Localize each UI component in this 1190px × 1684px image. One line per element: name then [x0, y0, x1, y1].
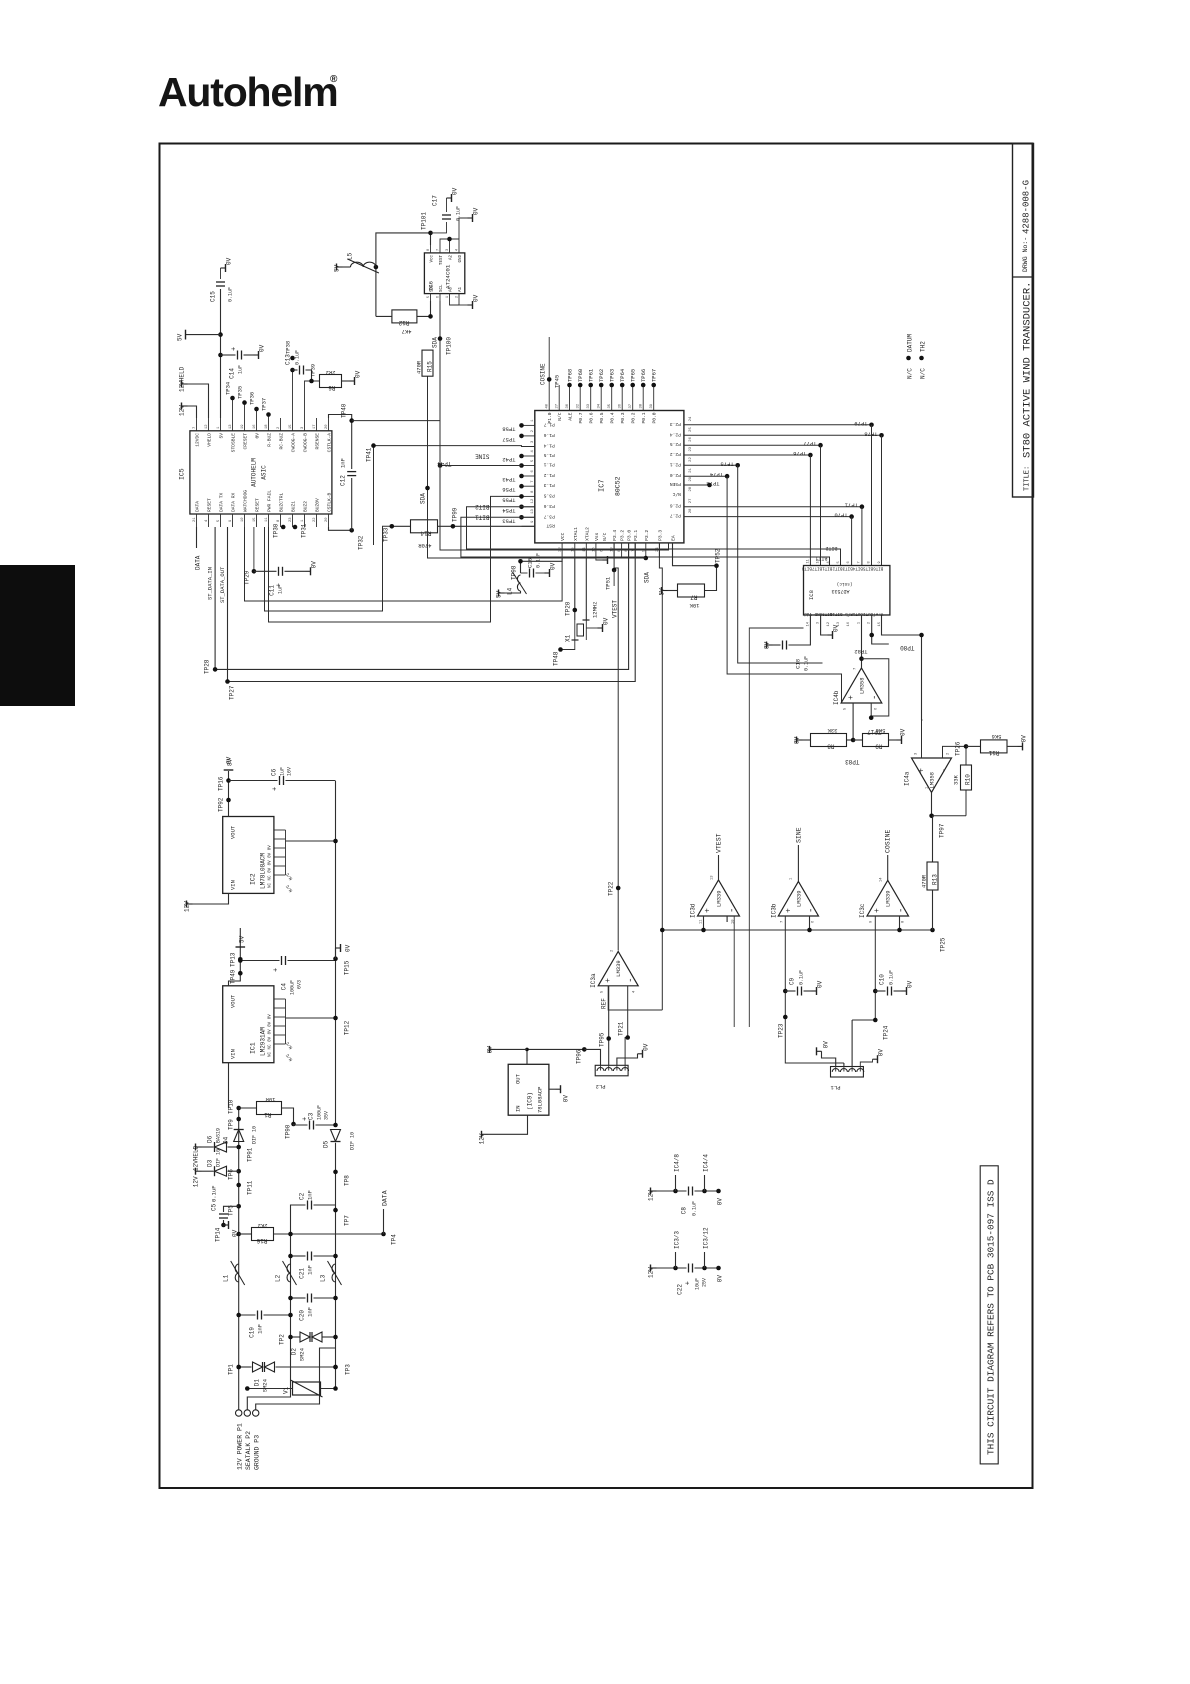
svg-text:TEST: TEST [440, 255, 444, 266]
net label COSINE output [887, 855, 889, 880]
testpoint TP9 [236, 1117, 241, 1122]
svg-text:3: 3 [817, 622, 821, 624]
testpoint TP48 [561, 640, 575, 650]
svg-text:SEATALK P2: SEATALK P2 [245, 1431, 252, 1470]
svg-text:PL1: PL1 [830, 1084, 841, 1091]
svg-text:12V POWER P1: 12V POWER P1 [237, 1423, 244, 1470]
svg-text:TP12: TP12 [344, 1020, 351, 1035]
svg-text:TP82: TP82 [854, 648, 867, 655]
testpoint TP99 [451, 524, 456, 529]
IC7 pin XTAL1 [574, 543, 576, 558]
power 5V branch [218, 332, 223, 337]
svg-text:P0.0: P0.0 [652, 412, 658, 423]
svg-text:12V: 12V [184, 901, 191, 912]
svg-text:P1.3: P1.3 [544, 482, 555, 488]
svg-text:5V: 5V [659, 588, 666, 596]
svg-text:40: 40 [546, 403, 550, 408]
svg-text:C2: C2 [299, 1192, 306, 1200]
svg-text:10K: 10K [689, 602, 700, 609]
capacitor C6 1uF 16V [229, 780, 278, 782]
testpoint TP37 [268, 415, 270, 419]
IC5 pin CSTLK-B [328, 514, 330, 527]
testpoint TP36 [256, 409, 258, 418]
svg-text:TP83: TP83 [845, 758, 860, 765]
svg-text:C10: C10 [879, 974, 886, 985]
svg-text:0V: 0V [563, 1095, 570, 1103]
inductor L1 [235, 1264, 238, 1282]
svg-text:TP40: TP40 [341, 403, 348, 418]
svg-text:P2.5: P2.5 [670, 441, 681, 447]
title block [1013, 144, 1034, 498]
svg-text:33K: 33K [953, 774, 960, 785]
capacitor C19 1nF [239, 1314, 256, 1316]
svg-text:IC3/3: IC3/3 [674, 1231, 681, 1249]
svg-text:6: 6 [437, 296, 441, 298]
svg-text:0.1uF: 0.1uF [228, 287, 234, 302]
svg-text:TH2: TH2 [920, 341, 927, 352]
IC7 pin P0.0 TP67 [653, 385, 655, 411]
svg-text:P3.2: P3.2 [644, 530, 650, 541]
svg-text:P1.6: P1.6 [544, 432, 555, 438]
svg-text:V1: V1 [283, 1386, 290, 1394]
wire BIT1 to IC8 [461, 517, 830, 565]
svg-text:IC3c: IC3c [859, 903, 866, 918]
diode D5 DIF 10 series on ground rail [331, 1130, 341, 1142]
svg-text:P2.0: P2.0 [670, 472, 681, 478]
svg-text:BUZ2: BUZ2 [303, 501, 309, 512]
testpoint TP32 [349, 528, 354, 533]
svg-text:22: 22 [313, 517, 317, 522]
wire CSTLK-A to TP40 [329, 415, 352, 421]
svg-text:+: + [685, 1281, 693, 1285]
IC5 AUTOHELM ASIC [190, 431, 332, 514]
svg-text:TP31: TP31 [301, 523, 308, 538]
svg-text:0V: 0V [473, 294, 480, 302]
wire ST_DATA_IN trunk to IC7 P3.0 [215, 527, 628, 669]
IC5 pin BUZ0V [316, 514, 318, 527]
svg-text:15: 15 [878, 622, 882, 626]
svg-text:R8: R8 [827, 743, 835, 750]
svg-text:12V: 12V [179, 405, 186, 416]
svg-text:-: - [728, 908, 738, 913]
svg-text:+: + [231, 347, 239, 351]
IC7 pin XTAL2 [585, 543, 587, 558]
svg-text:BIT2: BIT2 [825, 545, 837, 551]
svg-text:11: 11 [265, 517, 269, 522]
wire 12VHELD into IC1 [228, 1063, 230, 1108]
capacitor C15 0.1uF on 5V rail [220, 289, 222, 418]
IC7 pin P3.7 TP53 [522, 516, 535, 518]
svg-text:+: + [918, 768, 927, 773]
svg-text:(soic): (soic) [837, 581, 853, 586]
svg-text:R1: R1 [264, 1111, 272, 1118]
svg-text:10R: 10R [265, 1096, 276, 1103]
wire TP44 net P1.1 [352, 421, 522, 466]
diode D4 DIF 10 series [234, 1130, 244, 1142]
svg-text:R10: R10 [965, 774, 972, 785]
svg-text:LM358: LM358 [929, 772, 936, 789]
svg-text:P1.1: P1.1 [544, 462, 555, 468]
comparator IC3d LM339 [698, 880, 740, 916]
IC7 pin P3.4 [613, 543, 615, 558]
capacitor C12 1nF [351, 478, 353, 530]
svg-text:TP101: TP101 [421, 212, 428, 230]
svg-text:D2: D2 [291, 1348, 298, 1356]
inductor L2 [287, 1264, 290, 1282]
svg-text:TP22: TP22 [608, 881, 615, 896]
svg-text:BIT1: BIT1 [815, 555, 827, 561]
svg-text:ALE: ALE [568, 412, 574, 421]
testpoint TP100 [438, 336, 443, 341]
svg-text:100uF: 100uF [290, 980, 296, 995]
IC5 pin CWDOG-B [304, 418, 306, 431]
svg-text:BAS19: BAS19 [216, 1128, 222, 1143]
svg-text:13: 13 [531, 509, 535, 514]
svg-text:3: 3 [446, 249, 450, 251]
svg-text:7: 7 [193, 427, 197, 429]
wire IC3d minus from TP74 trunk [726, 916, 728, 922]
svg-text:LM339: LM339 [795, 890, 802, 907]
svg-text:ST_DATA_IN: ST_DATA_IN [207, 567, 214, 600]
IC8 AD7533 DAC [804, 566, 890, 616]
svg-text:DATA RX: DATA RX [231, 492, 237, 512]
svg-text:TP97: TP97 [939, 823, 946, 838]
svg-text:SINE: SINE [795, 827, 802, 843]
svg-text:18: 18 [265, 424, 269, 429]
svg-text:0.1uF: 0.1uF [536, 553, 542, 568]
svg-text:VIN: VIN [230, 880, 237, 890]
svg-text:TP48: TP48 [553, 651, 560, 666]
svg-text:0V: 0V [817, 980, 824, 988]
wire data to TP4 [274, 1233, 384, 1235]
svg-text:PSEN: PSEN [670, 481, 681, 487]
IC6 pin SDA [430, 294, 432, 301]
IC7 pin P1.2 TP43 [522, 475, 535, 477]
svg-text:SDA: SDA [420, 493, 427, 504]
testpoint TP8 [333, 1170, 338, 1175]
svg-text:TP14: TP14 [215, 1227, 222, 1242]
svg-text:TP71: TP71 [844, 502, 858, 509]
svg-text:10: 10 [732, 919, 736, 924]
svg-text:5V: 5V [239, 935, 246, 943]
svg-text:R6: R6 [328, 384, 336, 391]
wire IC3b minus stub [809, 916, 811, 930]
svg-text:0V: 0V [900, 728, 907, 736]
wire IC6 Vcc TP101 [376, 233, 431, 317]
svg-text:P3.3: P3.3 [657, 530, 663, 541]
svg-text:SINE: SINE [475, 453, 490, 460]
svg-text:P3.4: P3.4 [612, 530, 618, 541]
svg-text:(IC9): (IC9) [527, 1092, 534, 1110]
svg-text:P3.0: P3.0 [627, 530, 633, 541]
svg-text:25: 25 [689, 427, 693, 432]
svg-text:R14: R14 [420, 530, 431, 537]
IC8 OUT1 to IC4b output [861, 615, 863, 659]
svg-text:RSENSE: RSENSE [315, 433, 321, 450]
IC7 pin P3.6 TP54 [522, 506, 535, 508]
svg-text:21: 21 [689, 467, 693, 472]
net label SDA TP89 [644, 556, 649, 561]
svg-text:VTEST: VTEST [716, 833, 723, 853]
svg-text:IC3/12: IC3/12 [703, 1227, 710, 1249]
svg-text:5V: 5V [334, 264, 341, 272]
svg-text:-: - [940, 768, 950, 773]
IC7 pin P0.6 TP61 [590, 385, 592, 411]
svg-text:12: 12 [531, 498, 535, 503]
svg-text:15: 15 [253, 517, 257, 522]
svg-text:0.1uF: 0.1uF [804, 656, 810, 671]
IC5 pin R-BUZ [268, 418, 270, 431]
svg-text:C18: C18 [795, 659, 802, 669]
svg-text:WATCHDOG: WATCHDOG [243, 490, 249, 512]
svg-text:LM339: LM339 [615, 960, 622, 977]
wire IC6 TEST A2 GND jumper to 0V [440, 239, 459, 245]
net label REF [608, 986, 662, 1010]
svg-text:P3.7: P3.7 [544, 513, 555, 519]
testpoint TP23 [783, 1015, 788, 1020]
svg-text:32: 32 [577, 403, 581, 408]
svg-text:5V: 5V [177, 333, 184, 341]
svg-text:16: 16 [847, 622, 851, 626]
IC7 pin ALE TP68 [569, 385, 571, 411]
resistor R11 5K6 to 0V [966, 745, 981, 747]
capacitor C4 100uF 6V3 [240, 960, 279, 962]
testpoint TP96 [582, 1047, 587, 1052]
svg-text:PWR FAIL: PWR FAIL [267, 490, 273, 512]
svg-text:0V: 0V [907, 980, 914, 988]
svg-text:25V: 25V [702, 1278, 708, 1287]
svg-text:TP16: TP16 [218, 776, 225, 791]
wire IC4a output to TP97 [932, 792, 933, 815]
svg-text:C17: C17 [432, 195, 439, 206]
svg-text:TP61: TP61 [588, 368, 595, 382]
svg-text:0V: 0V [345, 944, 352, 952]
svg-text:A0: A0 [450, 286, 454, 292]
IC6 pin SCL [439, 294, 441, 301]
svg-text:0V: 0V [473, 207, 480, 215]
testpoint TP95 [606, 1036, 611, 1041]
svg-text:+: + [273, 968, 281, 972]
svg-text:TP30: TP30 [273, 523, 280, 538]
svg-text:R9: R9 [875, 743, 883, 750]
wire RST chain R14 470R [392, 525, 411, 527]
svg-text:16: 16 [253, 424, 257, 429]
testpoint TP30 [281, 525, 286, 530]
svg-text:P0.2: P0.2 [631, 412, 637, 423]
testpoint TP28 [213, 667, 218, 672]
svg-text:DRWG No:-: DRWG No:- [1022, 237, 1029, 272]
svg-text:IC8: IC8 [808, 590, 815, 600]
svg-text:1nF: 1nF [340, 458, 347, 468]
connector P1 12V POWER [236, 1410, 242, 1416]
svg-text:1uF: 1uF [280, 767, 286, 776]
svg-text:5: 5 [837, 561, 841, 563]
svg-text:TP9: TP9 [228, 1119, 235, 1130]
resistor R13 470R to TP25 [932, 816, 934, 862]
svg-text:0.1uF: 0.1uF [456, 206, 462, 221]
testpoint TP15 [333, 956, 338, 961]
wire PL2 pin3 0V [617, 1054, 638, 1065]
IC5 pin DATA TX [220, 514, 222, 527]
testpoint TP2 [288, 1335, 293, 1340]
svg-text:P1.2: P1.2 [544, 472, 555, 478]
svg-text:P2.1: P2.1 [670, 461, 681, 467]
svg-text:15: 15 [571, 547, 575, 552]
net label COSINE TP45 [548, 337, 550, 385]
svg-text:BUZ0V: BUZ0V [315, 498, 321, 512]
wire TP74 trunk to IC3d [727, 476, 841, 703]
svg-text:VHELD: VHELD [207, 433, 213, 447]
svg-text:BIT2: BIT2 [832, 566, 843, 570]
svg-text:4K7: 4K7 [402, 328, 412, 335]
IC2 LM78L08ACM regulator [223, 817, 274, 894]
svg-text:TP70: TP70 [834, 512, 847, 519]
svg-text:1nF: 1nF [257, 1324, 264, 1334]
svg-text:D1: D1 [254, 1379, 261, 1387]
svg-text:0V: 0V [1021, 735, 1028, 743]
wire ground jog [256, 1348, 336, 1410]
IC6 pin Vcc [430, 245, 432, 253]
svg-text:0V: 0V [452, 187, 459, 195]
ground 0V crystal [586, 627, 597, 629]
svg-text:15: 15 [289, 424, 293, 429]
svg-text:13: 13 [711, 875, 715, 880]
wire IC3c minus stub [899, 916, 901, 930]
svg-text:XTAL2: XTAL2 [584, 527, 590, 541]
testpoint TP26 [964, 744, 969, 749]
testpoint TP90 [291, 1122, 296, 1127]
capacitor C21 1nF [291, 1255, 306, 1257]
svg-text:AUTOHELM: AUTOHELM [251, 458, 258, 487]
testpoint TP29 and capacitor C11 1uF [253, 527, 255, 571]
svg-text:N/C: N/C [557, 412, 563, 421]
svg-text:DIF 10: DIF 10 [350, 1132, 356, 1150]
svg-text:P0.5: P0.5 [599, 412, 605, 423]
wire IC5 RESET bus to RST [265, 526, 392, 611]
svg-text:RESET: RESET [207, 498, 213, 512]
svg-text:23: 23 [689, 446, 693, 451]
wire seatalk jog [247, 1209, 290, 1410]
svg-text:0V: 0V [878, 1049, 885, 1057]
svg-text:5: 5 [427, 296, 431, 298]
svg-text:-: - [870, 695, 880, 700]
wire IC1 5V out [229, 928, 241, 986]
wire ground rail [335, 1143, 337, 1348]
svg-text:IC3a: IC3a [590, 973, 597, 988]
IC5 pin WATCHDOG [244, 514, 246, 527]
svg-text:BIT5: BIT5 [863, 566, 874, 570]
note box PCB issue [980, 1166, 998, 1464]
ground GND pin IC8 [821, 615, 828, 635]
capacitor C3 100uF 35V [294, 1124, 308, 1125]
svg-text:TP68: TP68 [567, 369, 574, 382]
wire IC9 8V out to TP96 [527, 1049, 584, 1064]
svg-text:+: + [604, 978, 613, 983]
svg-text:TP90: TP90 [285, 1124, 292, 1139]
svg-text:+: + [272, 787, 280, 791]
svg-text:L5: L5 [347, 252, 354, 260]
svg-text:LM78L08ACM: LM78L08ACM [260, 853, 267, 889]
svg-text:VTEST: VTEST [612, 600, 619, 618]
svg-text:PL2: PL2 [596, 1083, 606, 1090]
svg-text:5V: 5V [219, 433, 225, 439]
svg-text:R-BUZ: R-BUZ [267, 433, 273, 447]
svg-text:SM24: SM24 [262, 1378, 269, 1392]
svg-text:14: 14 [880, 877, 884, 882]
connector P2 SEATALK [244, 1410, 250, 1416]
svg-text:IC3b: IC3b [770, 903, 777, 918]
svg-text:OUT2: OUT2 [863, 611, 874, 615]
svg-text:P1.0: P1.0 [547, 412, 553, 423]
testpoint TP97 [929, 814, 934, 819]
testpoint TP21 [625, 1035, 630, 1040]
testpoint TP5 [236, 1204, 241, 1209]
svg-text:470R: 470R [418, 542, 432, 549]
svg-text:12VDC: 12VDC [195, 433, 201, 447]
svg-text:78L08ACP: 78L08ACP [537, 1087, 544, 1113]
svg-text:TP55: TP55 [502, 496, 515, 503]
svg-text:Vss: Vss [594, 532, 600, 541]
svg-text:12MHz: 12MHz [592, 601, 599, 618]
svg-text:C22: C22 [677, 1284, 684, 1295]
svg-text:N/C: N/C [602, 532, 608, 541]
svg-text:BUZCTRL: BUZCTRL [279, 492, 285, 512]
testpoint TP17 [869, 715, 874, 720]
svg-text:DATA: DATA [382, 1190, 389, 1206]
svg-text:X1: X1 [565, 634, 572, 642]
capacitor C20 1nF [291, 1297, 306, 1299]
IC5 pin BUZ1 [292, 514, 294, 527]
wire IC3b plus from TP23 line [785, 916, 844, 1063]
resistor R1 10R [239, 1107, 257, 1109]
svg-text:TP60: TP60 [577, 369, 584, 382]
svg-text:35: 35 [608, 403, 612, 408]
wire comparator minus bus to TP25 [662, 929, 932, 931]
svg-text:LM339: LM339 [885, 890, 892, 907]
testpoint TP31 [293, 525, 298, 530]
svg-text:27: 27 [689, 499, 693, 504]
svg-text:COSINE: COSINE [540, 363, 547, 385]
svg-text:P0.3: P0.3 [620, 412, 626, 423]
svg-text:C4: C4 [281, 983, 288, 991]
svg-text:TP39: TP39 [310, 364, 317, 377]
svg-text:P3.5: P3.5 [544, 492, 555, 498]
svg-text:0V: 0V [717, 1275, 724, 1283]
svg-text:ST_DATA_OUT: ST_DATA_OUT [219, 566, 226, 603]
svg-text:470R: 470R [921, 874, 928, 888]
svg-text:TP49: TP49 [230, 969, 237, 984]
comparator IC3b LM339 [778, 881, 818, 916]
IC7 80C52 microcontroller [535, 411, 684, 543]
svg-text:12V: 12V [193, 1176, 200, 1187]
wire PL1 pin4 0V [860, 1059, 872, 1066]
svg-text:80C52: 80C52 [615, 476, 622, 496]
svg-text:Autohelm: Autohelm [158, 69, 337, 115]
svg-text:BIT4: BIT4 [852, 566, 863, 570]
net label N/C TH2 [919, 356, 924, 361]
connector P3 GROUND [253, 1410, 259, 1416]
testpoint TP34 [232, 398, 234, 418]
wire TP75 trunk [738, 465, 823, 663]
svg-text:TP24: TP24 [883, 1025, 890, 1040]
power 8V [224, 769, 234, 771]
svg-text:33: 33 [587, 403, 591, 408]
svg-text:P0.4: P0.4 [610, 412, 616, 423]
svg-text:XTAL1: XTAL1 [573, 527, 579, 541]
svg-text:38: 38 [640, 403, 644, 408]
svg-text:19: 19 [241, 424, 245, 429]
diode D3 DIF 10 to 12V [228, 1170, 239, 1172]
